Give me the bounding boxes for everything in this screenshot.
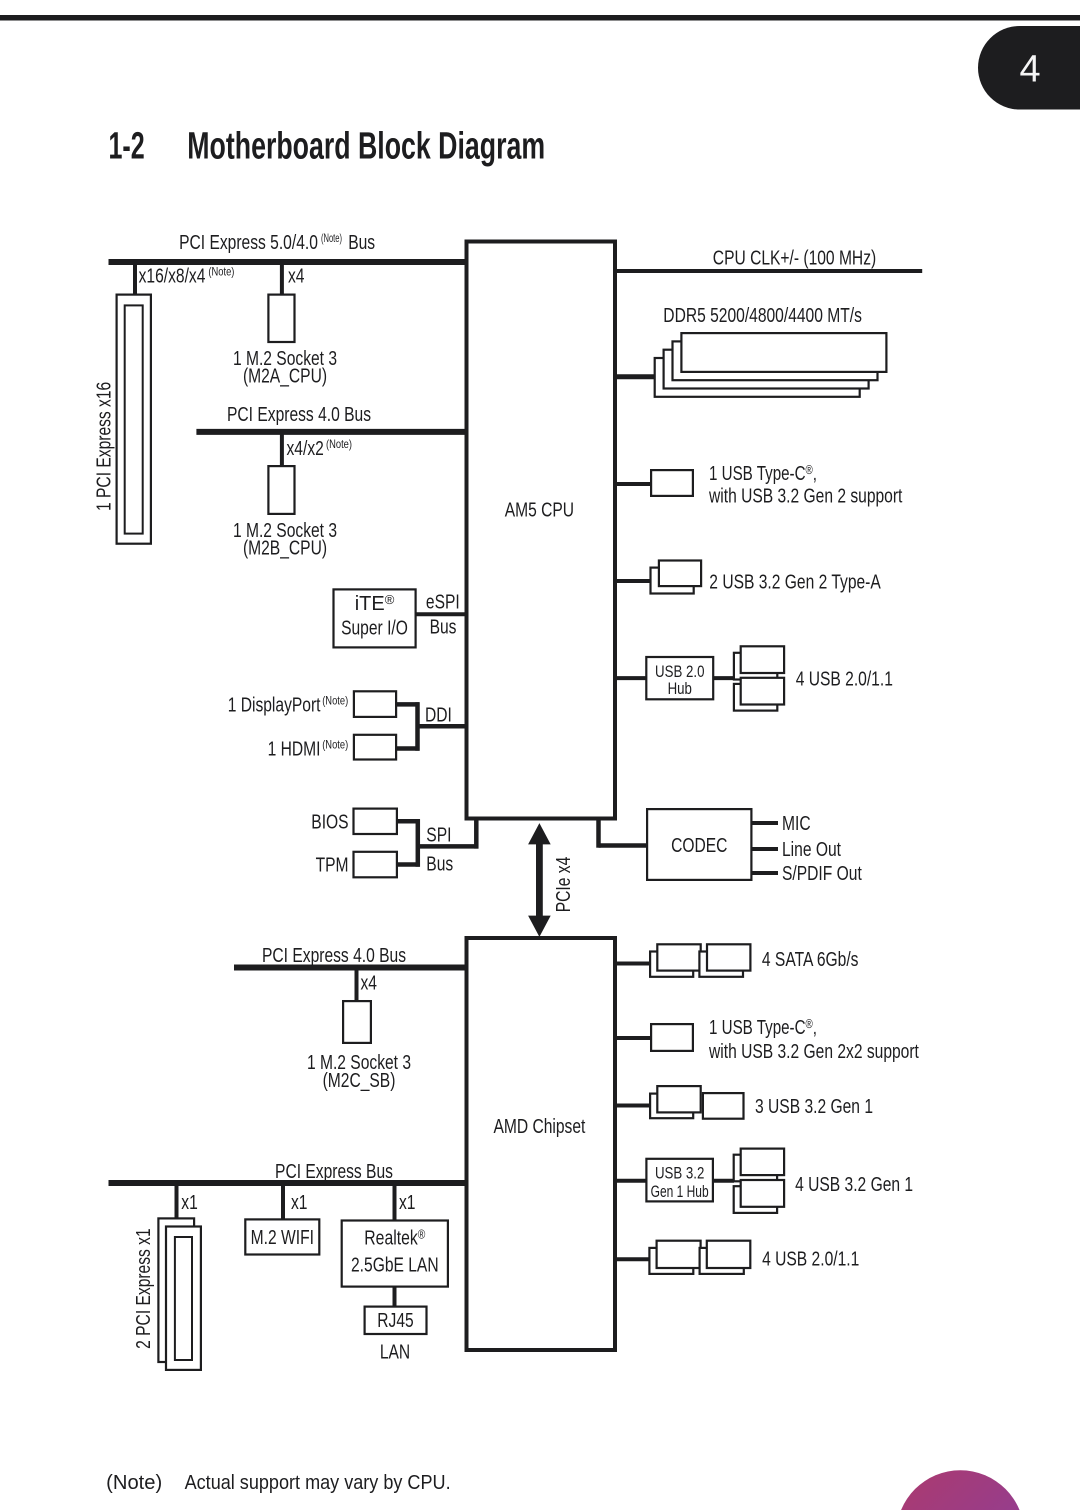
svg-text:(Note): (Note)	[322, 693, 348, 707]
svg-text:(M2C_SB): (M2C_SB)	[323, 1070, 396, 1092]
svg-text:PCIe x4: PCIe x4	[553, 857, 575, 913]
svg-text:(M2B_CPU): (M2B_CPU)	[243, 538, 327, 560]
svg-text:Super I/O: Super I/O	[341, 618, 408, 640]
svg-text:(Note): (Note)	[208, 265, 234, 279]
svg-text:1 USB Type-C®,: 1 USB Type-C®,	[709, 462, 817, 485]
svg-text:1-2: 1-2	[109, 125, 145, 167]
svg-text:(Note): (Note)	[326, 437, 352, 451]
svg-text:Realtek®: Realtek®	[364, 1227, 425, 1250]
svg-text:1 USB Type-C®,: 1 USB Type-C®,	[709, 1016, 817, 1039]
svg-text:USB 3.2: USB 3.2	[655, 1164, 704, 1183]
svg-text:Hub: Hub	[668, 679, 692, 698]
svg-text:x4/x2: x4/x2	[287, 438, 324, 460]
svg-text:2 USB 3.2 Gen 2 Type-A: 2 USB 3.2 Gen 2 Type-A	[709, 572, 881, 594]
svg-text:(Note): (Note)	[321, 231, 342, 245]
svg-text:4 SATA 6Gb/s: 4 SATA 6Gb/s	[762, 949, 859, 971]
svg-text:1 PCI Express x16: 1 PCI Express x16	[94, 382, 116, 511]
svg-text:Bus: Bus	[348, 232, 375, 254]
svg-text:x1: x1	[181, 1192, 198, 1214]
svg-text:TPM: TPM	[316, 855, 349, 877]
svg-text:PCI Express 5.0/4.0: PCI Express 5.0/4.0	[179, 232, 318, 254]
svg-text:x1: x1	[399, 1192, 416, 1214]
svg-text:CPU CLK+/- (100 MHz): CPU CLK+/- (100 MHz)	[713, 248, 876, 270]
svg-text:AMD Chipset: AMD Chipset	[493, 1116, 585, 1138]
svg-text:MIC: MIC	[782, 813, 811, 835]
svg-text:2.5GbE LAN: 2.5GbE LAN	[351, 1255, 439, 1277]
svg-text:x4: x4	[361, 973, 378, 995]
svg-text:(Note): (Note)	[106, 1472, 162, 1494]
svg-text:with USB 3.2 Gen 2x2 support: with USB 3.2 Gen 2x2 support	[708, 1041, 919, 1063]
svg-text:M.2 WIFI: M.2 WIFI	[251, 1227, 314, 1249]
svg-text:with USB 3.2 Gen 2 support: with USB 3.2 Gen 2 support	[708, 486, 903, 508]
svg-text:x4: x4	[288, 266, 305, 288]
svg-text:LAN: LAN	[380, 1342, 410, 1364]
svg-text:Gen 1 Hub: Gen 1 Hub	[651, 1182, 709, 1201]
svg-text:4 USB 2.0/1.1: 4 USB 2.0/1.1	[796, 669, 893, 691]
svg-text:Motherboard Block Diagram: Motherboard Block Diagram	[187, 125, 545, 167]
svg-text:SPI: SPI	[426, 825, 451, 847]
svg-text:Bus: Bus	[426, 853, 453, 875]
svg-text:PCI Express Bus: PCI Express Bus	[275, 1161, 393, 1183]
svg-text:eSPI: eSPI	[426, 592, 460, 614]
svg-text:1 HDMI: 1 HDMI	[268, 739, 321, 761]
svg-text:DDR5 5200/4800/4400 MT/s: DDR5 5200/4800/4400 MT/s	[663, 305, 862, 327]
svg-text:(M2A_CPU): (M2A_CPU)	[243, 366, 327, 388]
svg-text:BIOS: BIOS	[311, 811, 348, 833]
svg-text:PCI Express 4.0 Bus: PCI Express 4.0 Bus	[227, 404, 371, 426]
svg-text:1 DisplayPort: 1 DisplayPort	[228, 694, 321, 716]
svg-text:AM5 CPU: AM5 CPU	[505, 500, 574, 522]
svg-text:x16/x8/x4: x16/x8/x4	[139, 266, 206, 288]
svg-text:x1: x1	[291, 1192, 308, 1214]
svg-text:CODEC: CODEC	[671, 835, 727, 857]
svg-text:Line Out: Line Out	[782, 839, 841, 861]
svg-text:4 USB 2.0/1.1: 4 USB 2.0/1.1	[762, 1249, 859, 1271]
svg-text:PCI Express 4.0 Bus: PCI Express 4.0 Bus	[262, 945, 406, 967]
svg-text:(Note): (Note)	[322, 738, 348, 752]
svg-text:2 PCI Express x1: 2 PCI Express x1	[133, 1228, 155, 1349]
svg-text:DDI: DDI	[425, 705, 452, 727]
svg-text:Bus: Bus	[430, 617, 457, 639]
svg-text:3 USB 3.2 Gen 1: 3 USB 3.2 Gen 1	[755, 1096, 873, 1118]
svg-text:4 USB 3.2 Gen 1: 4 USB 3.2 Gen 1	[795, 1174, 913, 1196]
svg-text:RJ45: RJ45	[377, 1310, 413, 1332]
svg-text:S/PDIF Out: S/PDIF Out	[782, 863, 862, 885]
svg-text:Actual support may vary by CPU: Actual support may vary by CPU.	[185, 1472, 451, 1494]
svg-text:4: 4	[1019, 49, 1040, 91]
